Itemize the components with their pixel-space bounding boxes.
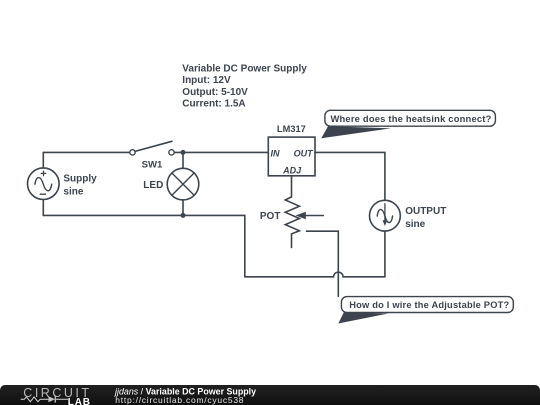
svg-text:http://circuitlab.com/cyuc538: http://circuitlab.com/cyuc538: [115, 395, 244, 405]
svg-text:How do I wire the Adjustable P: How do I wire the Adjustable POT?: [349, 300, 509, 310]
svg-text:Where does the heatsink connec: Where does the heatsink connect?: [330, 113, 491, 124]
svg-text:Input: 12V: Input: 12V: [182, 75, 231, 86]
svg-text:Variable DC Power Supply: Variable DC Power Supply: [182, 63, 307, 74]
svg-text:SW1: SW1: [142, 159, 163, 170]
svg-text:sine: sine: [405, 219, 425, 230]
svg-text:Current: 1.5A: Current: 1.5A: [182, 99, 245, 110]
svg-text:OUTPUT: OUTPUT: [405, 206, 446, 217]
svg-text:OUT: OUT: [294, 149, 315, 159]
svg-text:ADJ: ADJ: [282, 166, 302, 176]
svg-text:LED: LED: [143, 180, 163, 191]
svg-text:POT: POT: [260, 211, 281, 222]
svg-text:Supply: Supply: [63, 174, 97, 185]
svg-text:sine: sine: [63, 187, 83, 198]
svg-text:LAB: LAB: [68, 397, 91, 405]
svg-text:Output: 5-10V: Output: 5-10V: [182, 87, 248, 98]
svg-text:IN: IN: [271, 149, 281, 159]
svg-text:LM317: LM317: [277, 124, 306, 134]
